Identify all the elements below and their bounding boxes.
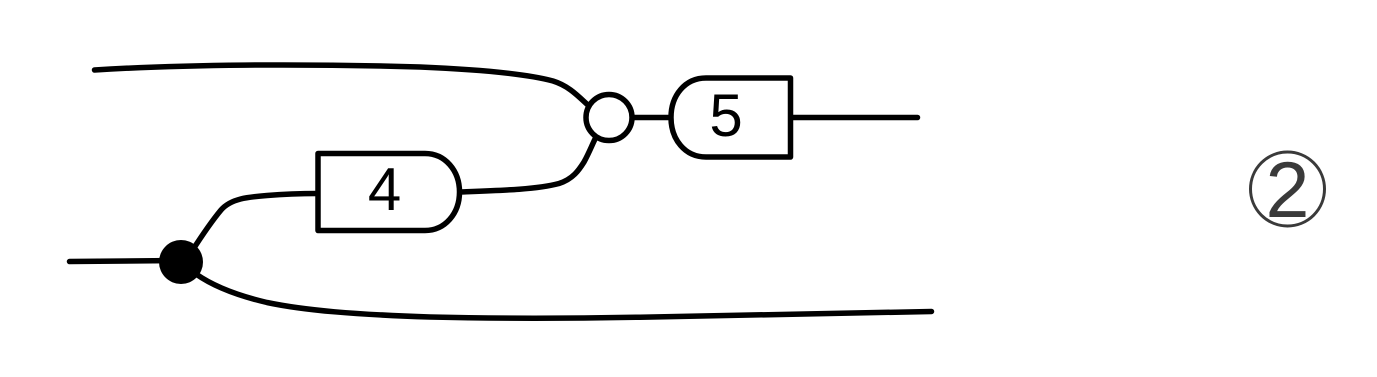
svg-text:2: 2 — [1266, 145, 1310, 234]
inverter bubble — [586, 95, 632, 141]
svg-text:5: 5 — [709, 82, 742, 149]
wire left input to junction — [70, 261, 181, 262]
gate box 4 — [318, 154, 460, 231]
annotation circle 2 — [1251, 145, 1325, 234]
wire junction to bottom output — [196, 274, 932, 318]
wire top input to bubble — [95, 65, 590, 106]
gate box 5 — [671, 78, 791, 157]
wire bubble to gate 5 — [633, 115, 670, 121]
wire junction to gate 4 input — [192, 194, 318, 252]
svg-text:4: 4 — [368, 156, 401, 223]
wire gate 4 output to bubble — [459, 137, 596, 192]
wire gate 5 output — [791, 115, 918, 121]
junction dot — [159, 240, 203, 284]
